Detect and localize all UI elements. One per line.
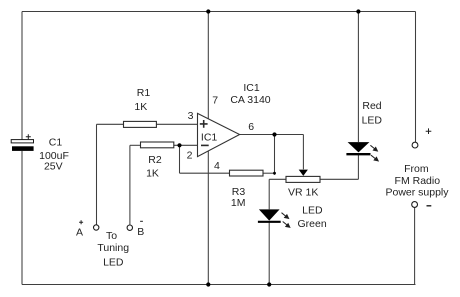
- svg-text:From: From: [404, 163, 429, 175]
- svg-text:LED: LED: [103, 257, 124, 269]
- svg-text:FM Radio: FM Radio: [395, 175, 441, 187]
- svg-text:IC1: IC1: [201, 132, 218, 144]
- svg-text:A: A: [76, 226, 83, 238]
- svg-text:1K: 1K: [146, 167, 159, 179]
- svg-text:7: 7: [212, 95, 218, 107]
- svg-text:R2: R2: [148, 154, 162, 166]
- svg-text:Green: Green: [298, 218, 327, 230]
- svg-text:3: 3: [188, 110, 194, 122]
- svg-text:1K: 1K: [134, 101, 147, 113]
- svg-text:VR 1K: VR 1K: [288, 187, 318, 199]
- svg-text:25V: 25V: [44, 161, 63, 173]
- svg-text:6: 6: [248, 121, 254, 133]
- svg-text:4: 4: [214, 160, 220, 172]
- svg-text:C1: C1: [49, 137, 63, 149]
- svg-text:B: B: [137, 226, 144, 238]
- svg-text:CA 3140: CA 3140: [230, 94, 270, 106]
- svg-text:LED: LED: [302, 205, 323, 217]
- svg-text:IC1: IC1: [243, 82, 260, 94]
- svg-text:2: 2: [187, 150, 193, 162]
- svg-text:LED: LED: [362, 114, 383, 126]
- svg-text:1M: 1M: [231, 197, 246, 209]
- svg-text:To: To: [106, 230, 117, 242]
- svg-text:Tuning: Tuning: [97, 242, 129, 254]
- svg-text:Red: Red: [362, 100, 381, 112]
- svg-text:Power supply: Power supply: [385, 186, 449, 198]
- svg-text:R1: R1: [137, 87, 151, 99]
